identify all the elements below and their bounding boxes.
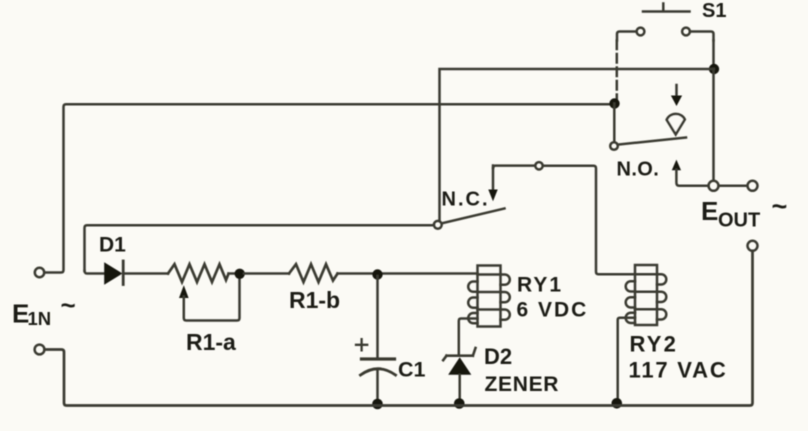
wire dashed from S1 left contact down to node [616, 41, 619, 100]
svg-text:E: E [701, 196, 718, 226]
terminal EIN top [35, 268, 44, 277]
node junction RY2 bottom [612, 398, 623, 409]
wire bottom rail [45, 251, 753, 406]
svg-text:RY1: RY1 [517, 274, 563, 297]
svg-text:~: ~ [772, 192, 788, 222]
svg-text:D1: D1 [99, 234, 126, 257]
svg-text:R1-a: R1-a [186, 329, 236, 355]
contact NC fixed arrow [488, 166, 497, 202]
wire circle to RY2 coil [543, 166, 635, 274]
zener diode D2 [443, 348, 475, 400]
terminal EIN bottom [35, 345, 45, 355]
wire D1 to R1-a [124, 272, 168, 275]
label EIN [12, 290, 76, 329]
svg-text:N.C.: N.C. [442, 189, 490, 211]
contact NO pivot [610, 142, 618, 150]
wire RY1 exit to zener D2 [459, 319, 478, 355]
svg-text:~: ~ [61, 290, 76, 320]
node junction S1 right / EOUT branch [709, 64, 719, 74]
node junction R1-a wiper [235, 269, 245, 279]
wire EIN top up and across top to node [44, 104, 610, 272]
resistor R1-b zigzag [289, 264, 338, 282]
node junction top wire / dashed S1 [609, 98, 619, 108]
svg-text:1N: 1N [28, 308, 52, 329]
node junction C1 top [372, 269, 382, 279]
svg-text:S1: S1 [702, 0, 726, 22]
switch S1 left contact [617, 28, 644, 41]
wire main rail start [85, 271, 104, 274]
wire long from NC pivot left and down to main rail [85, 225, 434, 271]
wire from node down to EOUT terminal circle [712, 69, 715, 181]
terminal EOUT top [748, 181, 758, 191]
capacitor C1 [356, 276, 396, 401]
wire R1-b to RY1 [338, 272, 478, 275]
svg-text:ZENER: ZENER [485, 373, 560, 396]
wire RY2 exit down to bottom rail [618, 318, 635, 400]
wiper arrow of R1-a [179, 279, 240, 321]
svg-text:RY2: RY2 [630, 332, 679, 357]
node junction C1 bottom [372, 399, 383, 410]
terminal EOUT bottom [748, 241, 758, 251]
svg-text:117 VAC: 117 VAC [629, 358, 728, 383]
wire to EOUT terminal [719, 185, 748, 188]
svg-text:6 VDC: 6 VDC [517, 299, 589, 322]
svg-text:D2: D2 [484, 344, 512, 369]
wire NC fixed to RY2 branch [493, 166, 535, 168]
contact NO fixed with up arrow [672, 160, 709, 186]
svg-text:N.O.: N.O. [617, 159, 660, 181]
relay coil RY1 [468, 266, 510, 327]
actuator plunger symbol [667, 114, 685, 134]
terminal circle on NC-RY2 wire [535, 162, 542, 169]
resistor R1-a zigzag [168, 264, 229, 282]
wire R1-a to node [229, 272, 237, 275]
svg-text:OUT: OUT [718, 210, 760, 232]
node junction D2 bottom [454, 398, 465, 409]
wire node down to NO pivot [613, 104, 616, 142]
wire from S1 right contact down [712, 41, 715, 70]
svg-text:C1: C1 [398, 358, 426, 382]
terminal junction on EOUT wire [709, 181, 719, 191]
svg-text:R1-b: R1-b [289, 287, 340, 313]
wire node to R1-b [244, 272, 289, 275]
contact NC moving arm [442, 209, 505, 224]
label EOUT [701, 192, 787, 232]
switch S1 button bar [643, 4, 690, 12]
actuator arrow above NO [671, 85, 682, 106]
contact NC pivot [434, 221, 442, 229]
contact NO moving arm [618, 138, 686, 145]
relay coil RY2 [626, 265, 667, 325]
wire horizontal y69 to NC branch [440, 69, 715, 221]
diode D1 [104, 261, 123, 285]
switch S1 right contact [682, 28, 713, 41]
